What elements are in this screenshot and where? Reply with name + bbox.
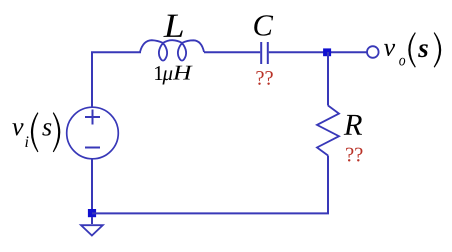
label C — [254, 15, 273, 35]
wire: top-left horizontal (source top to inductor) — [92, 52, 141, 108]
ground symbol — [81, 225, 103, 235]
voltage source V1 circle — [67, 107, 119, 159]
label vi(s) — [12, 112, 60, 152]
resistor R1 zigzag — [317, 106, 339, 156]
value ?? for C — [256, 71, 272, 85]
wire: inductor to capacitor — [204, 51, 260, 53]
value ?? for R — [346, 148, 362, 162]
wire: source bottom to ground node — [91, 159, 93, 210]
label vo(s) — [384, 32, 441, 67]
capacitor C1 plates — [260, 42, 262, 64]
node junction square bottom-left — [88, 209, 96, 217]
wire: bottom horizontal — [92, 156, 328, 214]
label R — [344, 115, 362, 135]
inductor L1 — [140, 40, 204, 60]
wire: resistor top to junction — [327, 52, 329, 106]
ground stub wire — [91, 217, 93, 224]
label L — [163, 15, 182, 37]
wire: capacitor to output terminal (through junction) — [269, 51, 367, 53]
output terminal open circle — [367, 46, 379, 58]
node junction square top-right — [323, 48, 331, 56]
V1 minus sign — [85, 147, 100, 149]
value 1uH — [155, 66, 193, 85]
V1 plus sign — [85, 116, 100, 118]
